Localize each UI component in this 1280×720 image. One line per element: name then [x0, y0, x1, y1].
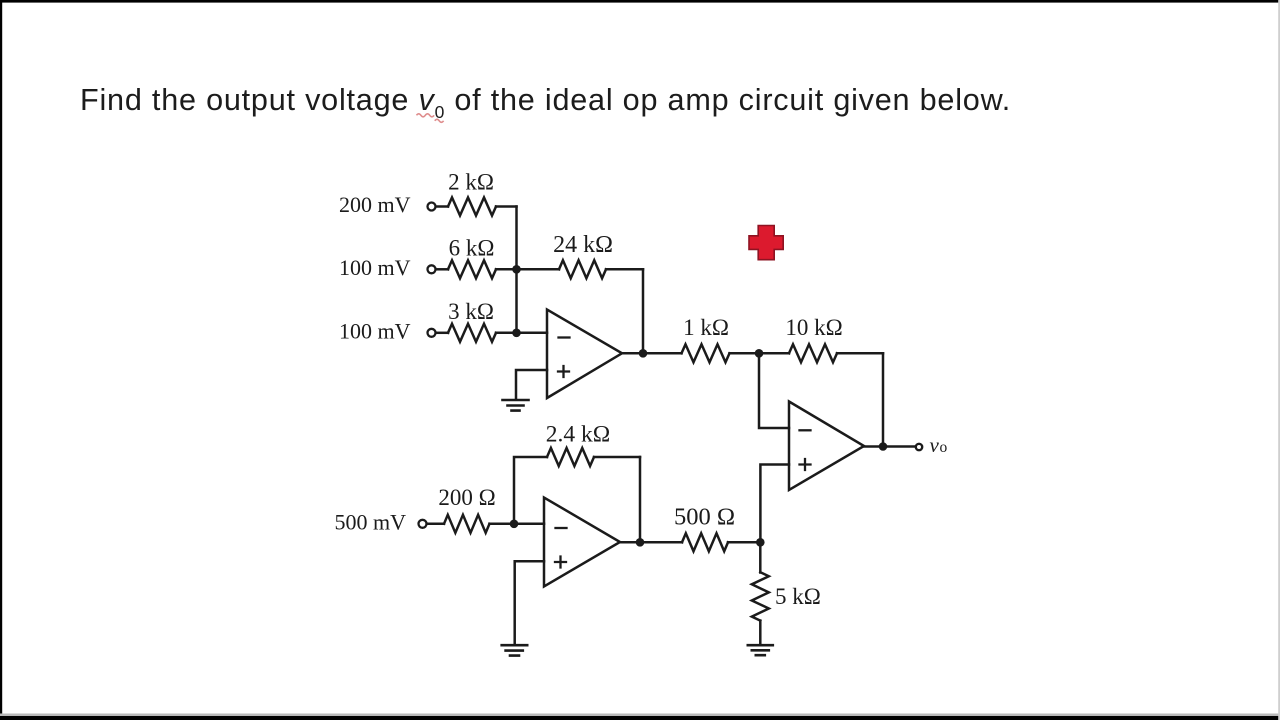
wire node to U2 inverting input	[759, 353, 789, 428]
terminal vo	[916, 444, 922, 450]
terminal 100 mV row3	[428, 329, 436, 337]
junction node 1k/10k	[755, 349, 764, 358]
svg-text:2.4 kΩ: 2.4 kΩ	[546, 422, 610, 448]
U3 plus sign	[555, 557, 566, 568]
terminal 500 mV	[419, 520, 427, 528]
terminal 100 mV row2	[428, 265, 436, 273]
wire U1 output	[622, 352, 682, 355]
svg-text:v: v	[930, 433, 940, 457]
resistor R6 10 kΩ	[789, 344, 837, 362]
svg-text:Find the output voltage v0 of: Find the output voltage v0 of the ideal …	[80, 83, 1011, 122]
wire node down to 5k	[759, 542, 762, 572]
wire row1 to bus	[496, 205, 517, 208]
resistor R1 2 kΩ	[448, 198, 496, 216]
frame top bar	[0, 0, 1280, 3]
resistor R8 2.4 kΩ feedback	[547, 448, 594, 466]
junction node row3	[512, 329, 521, 338]
wire U2 output	[864, 445, 915, 448]
wire 1k to node	[730, 352, 790, 355]
U2 plus sign	[800, 459, 811, 470]
resistor R4 24 kΩ feedback	[559, 260, 606, 278]
junction U3 output	[636, 538, 645, 547]
spellcheck squiggle under 0	[435, 119, 444, 122]
junction 500/5k node	[756, 538, 765, 547]
U3 minus sign	[556, 527, 567, 529]
wire U1 noninverting input	[516, 370, 547, 398]
svg-text:1 kΩ: 1 kΩ	[683, 315, 729, 340]
junction U1 output	[639, 349, 648, 358]
ground U1	[503, 400, 529, 411]
wire 24k to corner	[606, 268, 643, 271]
resistor R3 3 kΩ	[448, 324, 496, 342]
wire row3 to resistor	[436, 332, 448, 335]
U1 minus sign	[559, 336, 570, 338]
wire to U3 inverting input	[490, 523, 545, 526]
wire 2.4k to corner	[594, 456, 640, 459]
wire summing bus	[515, 207, 518, 333]
wire feedback down to U2 output	[882, 353, 885, 446]
resistor R10 5 kΩ	[752, 572, 769, 620]
wire 5k to ground	[759, 621, 762, 644]
op-amp U3	[544, 498, 620, 587]
wire 10k to corner	[837, 352, 883, 355]
wire feedback down to U3 output	[639, 457, 642, 542]
spellcheck squiggle under v	[417, 114, 435, 117]
U2 minus sign	[800, 429, 811, 431]
wire U2 noninverting input	[760, 465, 789, 543]
U1 plus sign	[558, 366, 569, 377]
ground U3	[502, 645, 528, 655]
ground 5k	[748, 645, 773, 655]
svg-text:200 Ω: 200 Ω	[438, 485, 495, 510]
frame right edge	[1278, 0, 1280, 720]
resistor R5 1 kΩ	[682, 344, 730, 362]
svg-text:100 mV: 100 mV	[339, 318, 411, 343]
red cursor cross	[749, 226, 783, 260]
svg-text:10 kΩ: 10 kΩ	[785, 315, 842, 340]
frame left bar	[0, 0, 2, 720]
svg-text:5 kΩ: 5 kΩ	[775, 584, 821, 609]
wire 500mV to resistor	[427, 523, 444, 526]
wire 500Ω to node	[728, 541, 760, 544]
wire bus to 24k	[517, 268, 560, 271]
terminal 200 mV	[428, 203, 436, 211]
wire row2 to resistor	[436, 268, 448, 271]
svg-text:2 kΩ: 2 kΩ	[448, 170, 494, 195]
junction U3 inverting	[510, 520, 519, 529]
resistor R9 500 Ω	[682, 533, 728, 551]
svg-text:24 kΩ: 24 kΩ	[553, 232, 613, 258]
junction node row2	[512, 265, 521, 274]
wire U3 output	[620, 541, 682, 544]
op-amp U2	[789, 402, 864, 491]
frame bottom bar	[0, 716, 1280, 720]
wire row2 to bus	[496, 268, 517, 271]
wire feedback down to U1 output	[642, 269, 645, 353]
svg-text:3 kΩ: 3 kΩ	[448, 299, 494, 324]
op-amp U1	[547, 310, 622, 399]
wire row3 to op-amp U1	[496, 332, 547, 335]
wire row1 to resistor	[436, 205, 448, 208]
svg-text:500 Ω: 500 Ω	[674, 504, 735, 531]
resistor R7 200 Ω	[444, 515, 489, 533]
wire U3 noninverting input	[515, 561, 544, 644]
junction U2 output	[879, 442, 888, 451]
svg-text:200 mV: 200 mV	[339, 192, 411, 217]
svg-text:100 mV: 100 mV	[339, 255, 411, 280]
svg-text:o: o	[940, 439, 948, 456]
svg-text:6 kΩ: 6 kΩ	[449, 236, 495, 261]
wire feedback up from node	[514, 457, 547, 524]
resistor R2 6 kΩ	[448, 260, 496, 278]
svg-text:500 mV: 500 mV	[335, 510, 407, 535]
